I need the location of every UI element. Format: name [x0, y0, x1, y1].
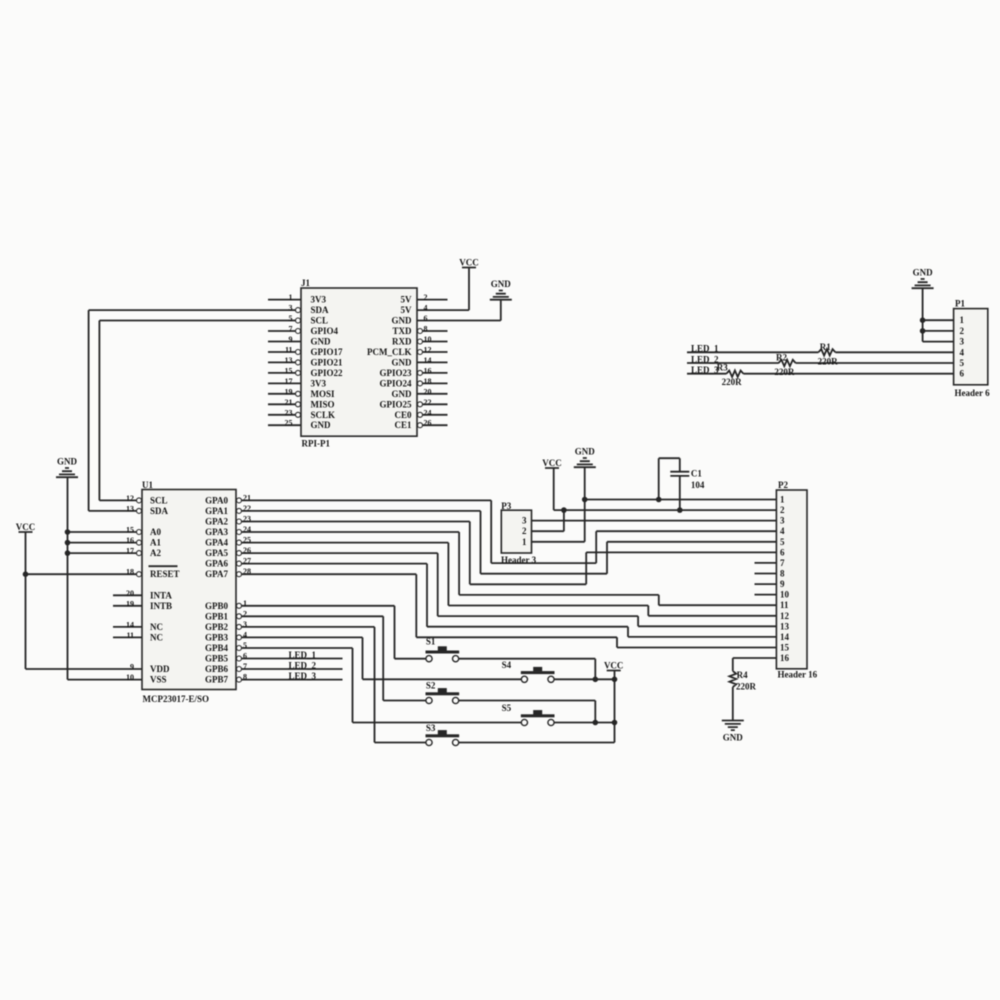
svg-text:6: 6: [424, 314, 428, 323]
svg-text:17: 17: [126, 547, 134, 556]
svg-text:7: 7: [243, 662, 247, 671]
svg-text:20: 20: [424, 387, 432, 396]
svg-text:GPIO17: GPIO17: [311, 347, 344, 357]
svg-text:VCC: VCC: [542, 458, 562, 468]
svg-text:1: 1: [289, 293, 293, 302]
svg-text:GND: GND: [913, 268, 934, 278]
svg-text:GPIO21: GPIO21: [311, 357, 344, 367]
svg-text:12: 12: [126, 494, 134, 503]
svg-text:8: 8: [424, 325, 428, 334]
svg-text:R4: R4: [737, 670, 748, 680]
svg-text:GPIO22: GPIO22: [311, 368, 344, 378]
svg-text:6: 6: [780, 547, 785, 557]
svg-text:4: 4: [243, 630, 247, 639]
svg-text:2: 2: [522, 526, 527, 536]
svg-text:26: 26: [243, 546, 251, 555]
svg-text:Header 3: Header 3: [501, 555, 537, 565]
svg-text:GND: GND: [392, 316, 413, 326]
svg-text:LED_2: LED_2: [289, 661, 317, 671]
svg-text:GPA1: GPA1: [205, 506, 228, 516]
svg-text:RPI-P1: RPI-P1: [302, 439, 331, 449]
svg-text:16: 16: [780, 653, 790, 663]
svg-text:R3: R3: [717, 363, 728, 373]
svg-text:R1: R1: [820, 342, 831, 352]
svg-text:LED_2: LED_2: [691, 354, 719, 364]
svg-text:GPA0: GPA0: [205, 495, 228, 505]
svg-text:PCM_CLK: PCM_CLK: [367, 347, 412, 357]
svg-text:GND: GND: [491, 279, 512, 289]
svg-text:15: 15: [780, 643, 790, 653]
svg-text:15: 15: [285, 366, 293, 375]
svg-text:3: 3: [289, 304, 293, 313]
svg-text:GPB7: GPB7: [205, 675, 229, 685]
svg-text:GPB0: GPB0: [205, 601, 229, 611]
svg-text:Header 6: Header 6: [955, 388, 991, 398]
svg-text:21: 21: [285, 398, 293, 407]
svg-text:16: 16: [424, 366, 432, 375]
svg-text:CE0: CE0: [394, 410, 412, 420]
svg-text:GPA6: GPA6: [205, 559, 228, 569]
svg-text:GND: GND: [311, 337, 332, 347]
svg-text:P2: P2: [778, 480, 788, 490]
svg-text:RXD: RXD: [392, 337, 412, 347]
svg-text:3: 3: [780, 516, 785, 526]
svg-text:10: 10: [780, 590, 790, 600]
svg-text:5V: 5V: [401, 305, 413, 315]
svg-text:14: 14: [126, 620, 134, 629]
svg-text:2: 2: [960, 326, 965, 336]
svg-text:3: 3: [960, 337, 965, 347]
svg-text:5: 5: [289, 314, 293, 323]
svg-text:SCL: SCL: [150, 495, 168, 505]
svg-text:4: 4: [780, 526, 785, 536]
svg-text:VSS: VSS: [150, 675, 167, 685]
svg-text:9: 9: [780, 579, 785, 589]
svg-text:15: 15: [126, 526, 134, 535]
svg-text:5: 5: [243, 641, 247, 650]
svg-text:Header 16: Header 16: [778, 670, 818, 680]
svg-text:VCC: VCC: [16, 522, 36, 532]
svg-text:19: 19: [126, 599, 134, 608]
svg-text:GPB5: GPB5: [205, 654, 229, 664]
svg-text:P1: P1: [955, 299, 965, 309]
svg-text:GPIO24: GPIO24: [379, 378, 412, 388]
svg-text:23: 23: [285, 408, 293, 417]
svg-text:5: 5: [780, 537, 785, 547]
svg-text:5V: 5V: [401, 295, 413, 305]
svg-text:S1: S1: [426, 637, 436, 647]
svg-text:3: 3: [522, 516, 527, 526]
svg-text:3V3: 3V3: [311, 295, 327, 305]
svg-text:S3: S3: [426, 723, 436, 733]
svg-text:24: 24: [424, 408, 432, 417]
svg-text:2: 2: [243, 609, 247, 618]
svg-text:13: 13: [780, 621, 790, 631]
svg-text:SCL: SCL: [311, 316, 329, 326]
svg-text:GPB3: GPB3: [205, 632, 229, 642]
svg-text:7: 7: [289, 325, 293, 334]
svg-text:GPB1: GPB1: [205, 611, 229, 621]
svg-text:3: 3: [243, 620, 247, 629]
svg-text:GND: GND: [575, 447, 596, 457]
svg-text:GPA7: GPA7: [205, 569, 228, 579]
svg-text:2: 2: [780, 505, 785, 515]
svg-text:11: 11: [285, 346, 293, 355]
svg-text:1: 1: [522, 537, 527, 547]
svg-text:INTA: INTA: [150, 590, 172, 600]
svg-text:22: 22: [424, 398, 432, 407]
svg-text:P3: P3: [501, 501, 511, 511]
svg-text:28: 28: [243, 567, 251, 576]
svg-text:3V3: 3V3: [311, 378, 327, 388]
svg-text:SCLK: SCLK: [311, 410, 336, 420]
svg-text:RESET: RESET: [150, 569, 180, 579]
svg-text:25: 25: [243, 536, 251, 545]
svg-text:VCC: VCC: [604, 661, 624, 671]
svg-text:TXD: TXD: [392, 326, 412, 336]
svg-text:GND: GND: [392, 357, 413, 367]
svg-text:4: 4: [960, 347, 965, 357]
svg-text:17: 17: [285, 377, 293, 386]
svg-text:220R: 220R: [736, 682, 757, 692]
svg-text:GND: GND: [392, 389, 413, 399]
svg-text:6: 6: [243, 652, 247, 661]
svg-text:13: 13: [126, 504, 134, 513]
svg-text:13: 13: [285, 356, 293, 365]
svg-text:A2: A2: [150, 548, 161, 558]
svg-text:2: 2: [424, 293, 428, 302]
svg-text:10: 10: [126, 673, 134, 682]
svg-text:MCP23017-E/SO: MCP23017-E/SO: [143, 694, 210, 704]
svg-text:NC: NC: [150, 622, 163, 632]
svg-text:16: 16: [126, 536, 134, 545]
svg-text:GPA5: GPA5: [205, 548, 228, 558]
svg-text:U1: U1: [142, 480, 153, 490]
svg-text:220R: 220R: [722, 377, 743, 387]
svg-text:MISO: MISO: [311, 399, 335, 409]
svg-text:A0: A0: [150, 527, 161, 537]
svg-text:MOSI: MOSI: [311, 389, 336, 399]
svg-text:VCC: VCC: [459, 258, 479, 268]
svg-text:GPB4: GPB4: [205, 643, 229, 653]
svg-text:5: 5: [960, 358, 965, 368]
svg-text:14: 14: [780, 632, 790, 642]
svg-text:11: 11: [780, 600, 789, 610]
svg-text:LED_1: LED_1: [289, 650, 317, 660]
svg-text:22: 22: [243, 504, 251, 513]
svg-text:GPIO25: GPIO25: [379, 399, 412, 409]
svg-text:S4: S4: [502, 660, 512, 670]
svg-text:1: 1: [960, 315, 965, 325]
svg-text:SDA: SDA: [150, 506, 169, 516]
svg-text:27: 27: [243, 557, 251, 566]
svg-text:GPB6: GPB6: [205, 664, 229, 674]
svg-text:GND: GND: [57, 457, 78, 467]
svg-text:A1: A1: [150, 538, 161, 548]
svg-text:GPB2: GPB2: [205, 622, 229, 632]
svg-text:11: 11: [126, 631, 134, 640]
svg-text:7: 7: [780, 558, 785, 568]
svg-text:GND: GND: [723, 733, 744, 743]
svg-text:R2: R2: [776, 353, 787, 363]
svg-text:S2: S2: [426, 681, 436, 691]
svg-text:220R: 220R: [774, 367, 795, 377]
svg-text:GPA2: GPA2: [205, 517, 228, 527]
svg-text:104: 104: [691, 480, 705, 490]
svg-text:LED_1: LED_1: [691, 344, 719, 354]
svg-text:20: 20: [126, 589, 134, 598]
svg-text:LED_3: LED_3: [289, 671, 317, 681]
svg-text:8: 8: [780, 569, 785, 579]
svg-text:NC: NC: [150, 632, 163, 642]
svg-text:S5: S5: [502, 703, 512, 713]
svg-text:GND: GND: [311, 420, 332, 430]
svg-text:18: 18: [424, 377, 432, 386]
svg-text:12: 12: [780, 611, 790, 621]
svg-text:4: 4: [424, 304, 428, 313]
svg-text:220R: 220R: [818, 357, 839, 367]
svg-text:1: 1: [243, 599, 247, 608]
svg-text:1: 1: [780, 495, 785, 505]
svg-text:J1: J1: [301, 278, 311, 288]
svg-text:VDD: VDD: [150, 664, 170, 674]
svg-text:SDA: SDA: [311, 305, 330, 315]
svg-text:8: 8: [243, 673, 247, 682]
svg-text:LED_3: LED_3: [691, 365, 719, 375]
svg-text:10: 10: [424, 335, 432, 344]
svg-text:21: 21: [243, 493, 251, 502]
svg-text:GPA4: GPA4: [205, 538, 228, 548]
svg-text:12: 12: [424, 346, 432, 355]
svg-text:GPIO23: GPIO23: [379, 368, 412, 378]
svg-text:9: 9: [130, 663, 134, 672]
svg-text:9: 9: [289, 335, 293, 344]
svg-text:26: 26: [424, 419, 432, 428]
svg-text:GPIO4: GPIO4: [311, 326, 339, 336]
svg-text:CE1: CE1: [394, 420, 412, 430]
svg-text:INTB: INTB: [150, 601, 172, 611]
svg-text:19: 19: [285, 387, 293, 396]
svg-text:14: 14: [424, 356, 432, 365]
svg-text:6: 6: [960, 369, 965, 379]
svg-text:24: 24: [243, 525, 251, 534]
svg-text:25: 25: [285, 419, 293, 428]
svg-text:18: 18: [126, 568, 134, 577]
svg-text:GPA3: GPA3: [205, 527, 228, 537]
svg-text:C1: C1: [691, 469, 702, 479]
svg-text:23: 23: [243, 515, 251, 524]
